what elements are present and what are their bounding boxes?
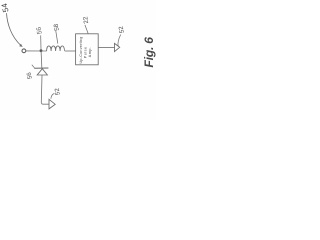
- varactor cathode bar: [34, 67, 48, 69]
- wire: varactor to ground elbow: [41, 75, 48, 104]
- leader 56 to junction: [40, 35, 42, 49]
- svg-text:52: 52: [118, 25, 126, 34]
- input terminal (open circle): [22, 49, 26, 53]
- varactor tick: [32, 65, 35, 68]
- svg-text:Fig. 6: Fig. 6: [142, 37, 156, 68]
- leader 52 to triangle: [118, 35, 121, 47]
- varactor diode triangle: [37, 69, 47, 75]
- svg-text:Amp.: Amp.: [88, 47, 92, 58]
- svg-text:52: 52: [54, 87, 62, 96]
- ground triangle (output): [115, 43, 120, 51]
- ground triangle (bottom): [49, 99, 55, 109]
- wire: terminal to coil: [26, 50, 47, 52]
- svg-text:Up-Converting: Up-Converting: [79, 36, 83, 63]
- svg-text:56: 56: [35, 26, 43, 35]
- wire: junction down to varactor: [40, 51, 43, 68]
- svg-text:58: 58: [53, 23, 61, 32]
- svg-text:56: 56: [26, 71, 33, 79]
- leader 22 to box: [85, 25, 88, 34]
- node junction dot: [40, 49, 43, 52]
- leader 58 to coil: [56, 31, 58, 44]
- wire: coil to box: [65, 50, 76, 52]
- leader arrow from 54 to input terminal: [7, 13, 21, 45]
- box 22 (up-converting pulse amp): [76, 34, 99, 65]
- wire: box output: [98, 46, 114, 48]
- svg-text:22: 22: [82, 15, 90, 24]
- svg-text:54: 54: [0, 2, 11, 13]
- leader 52 bottom: [51, 93, 55, 98]
- inductor L (coil): [47, 46, 65, 51]
